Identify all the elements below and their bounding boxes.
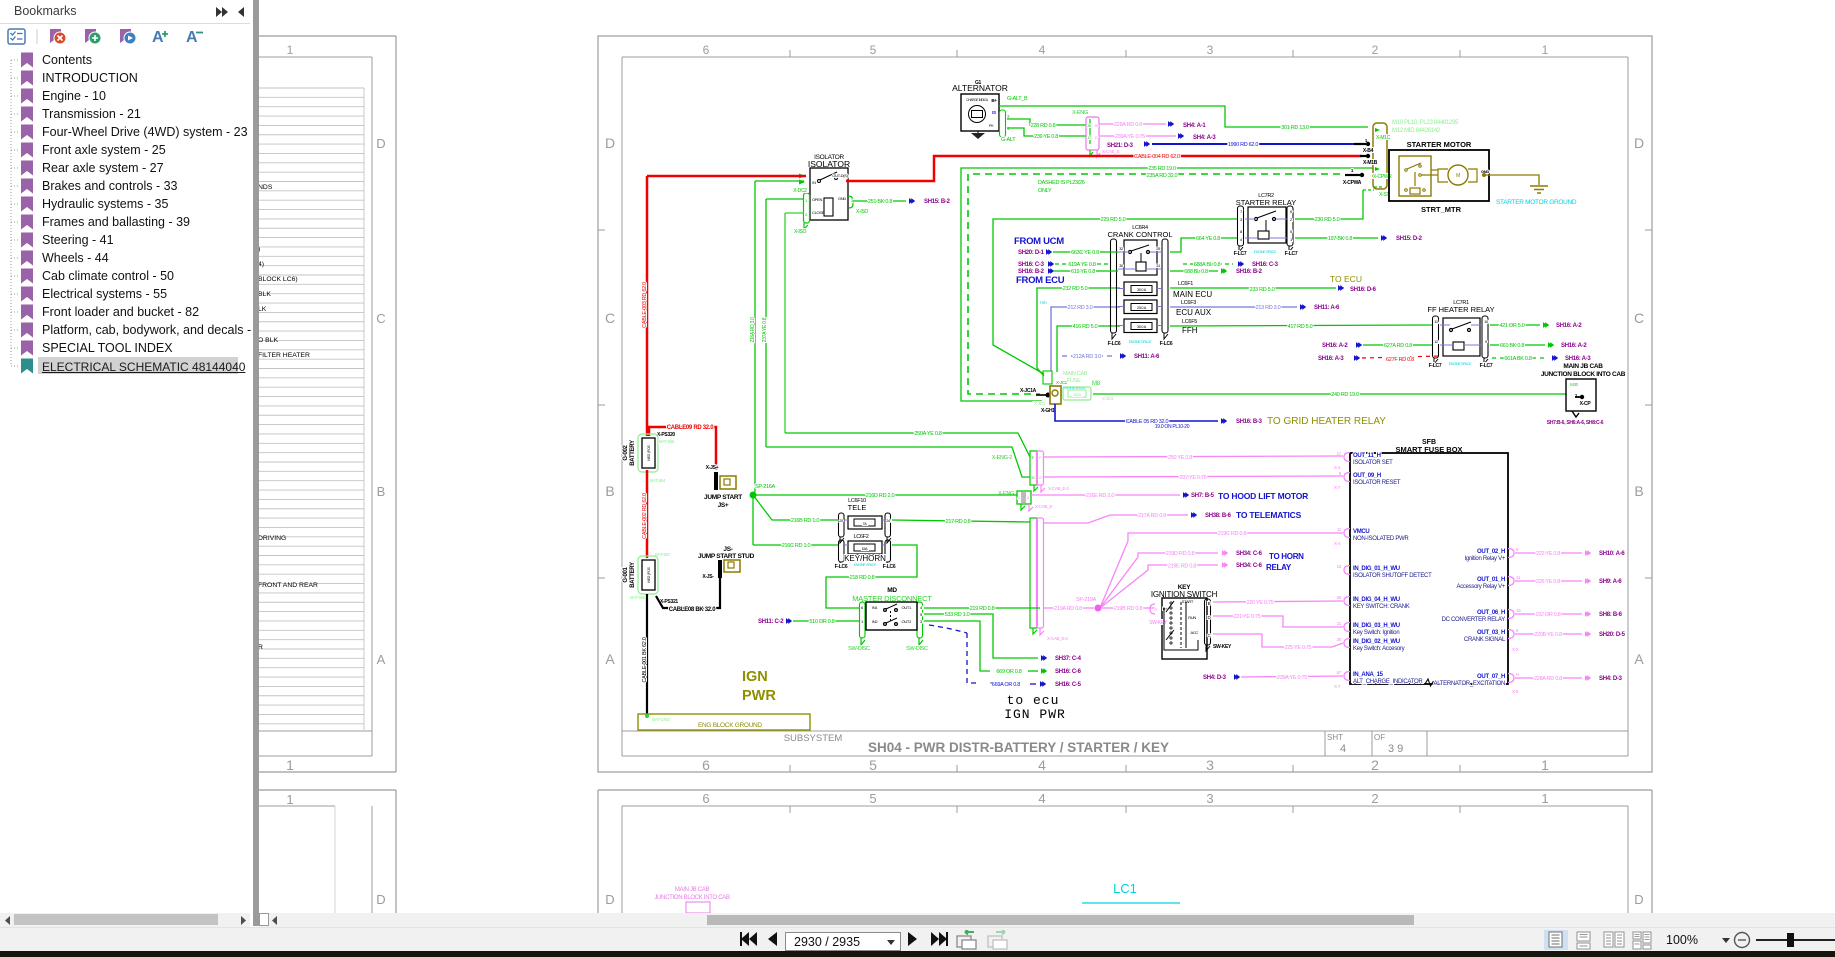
svg-text:SH15: D-2: SH15: D-2 [1396, 236, 1423, 242]
svg-text:421 OR 5.0: 421 OR 5.0 [1499, 323, 1524, 329]
svg-text:ENGINE SPACE: ENGINE SPACE [1129, 340, 1152, 344]
svg-text:ISOLATOR SHUTOFF DETECT: ISOLATOR SHUTOFF DETECT [1353, 573, 1432, 579]
svg-text:664 YE 0.8: 664 YE 0.8 [1196, 236, 1220, 242]
svg-text:30.0 A: 30.0 A [1137, 325, 1147, 329]
svg-text:BLK: BLK [258, 291, 271, 298]
svg-text:JUNCTION BLOCK INTO CAB: JUNCTION BLOCK INTO CAB [1541, 371, 1626, 378]
svg-text:STARTER MOTOR GROUND: STARTER MOTOR GROUND [1496, 199, 1577, 206]
svg-text:3: 3 [1206, 791, 1213, 806]
svg-text:ENG BLOCK GROUND: ENG BLOCK GROUND [698, 722, 762, 729]
svg-text:G-002: G-002 [623, 444, 629, 460]
svg-text:ONLY: ONLY [1038, 188, 1052, 194]
svg-text:DC CONVERTER RELAY: DC CONVERTER RELAY [1442, 617, 1506, 623]
svg-text:GND: GND [1481, 169, 1489, 174]
svg-text:LC6F2: LC6F2 [853, 534, 868, 540]
svg-text:663C YE 0.8: 663C YE 0.8 [1071, 250, 1099, 256]
svg-text:A: A [377, 652, 386, 667]
svg-text:ECU AUX: ECU AUX [1176, 308, 1212, 317]
svg-text:OUT_02_H: OUT_02_H [1477, 549, 1505, 555]
svg-text:IN_DIG_04_H_WU: IN_DIG_04_H_WU [1353, 597, 1400, 603]
svg-text:7A: 7A [862, 522, 867, 526]
svg-text:SH16: A-2: SH16: A-2 [1556, 323, 1582, 329]
svg-text:IN1: IN1 [872, 605, 878, 610]
svg-text:B+: B+ [991, 98, 997, 103]
svg-text:SH4: D-3: SH4: D-3 [1203, 675, 1227, 681]
svg-text:8: 8 [1516, 547, 1519, 552]
svg-text:235A RD 32.0: 235A RD 32.0 [1147, 173, 1178, 179]
svg-text:X-JC1: X-JC1 [1034, 401, 1046, 406]
svg-text:X-5: X-5 [1512, 689, 1519, 694]
svg-text:4: 4 [1340, 743, 1346, 755]
svg-text:SH16: C-3: SH16: C-3 [1252, 262, 1279, 268]
svg-text:218 RD 0.8: 218 RD 0.8 [850, 575, 875, 581]
svg-text:*669A OR 0.8: *669A OR 0.8 [990, 682, 1020, 688]
svg-text:15A: 15A [862, 547, 869, 551]
svg-text:5: 5 [870, 43, 877, 57]
svg-text:H: H [1516, 672, 1519, 677]
svg-text:OUT_09_H: OUT_09_H [1353, 473, 1381, 479]
svg-text:M12 MID 84426142: M12 MID 84426142 [1392, 128, 1441, 134]
svg-text:PWR: PWR [742, 688, 776, 704]
svg-text:IN_DIG_02_H_WU: IN_DIG_02_H_WU [1353, 639, 1400, 645]
svg-text:4: 4 [1240, 237, 1243, 242]
svg-text:SH4: A-3: SH4: A-3 [1193, 135, 1216, 141]
svg-text:2: 2 [1371, 757, 1379, 773]
svg-text:NON-ISOLATED PWR: NON-ISOLATED PWR [1353, 536, 1409, 542]
svg-text:192 OR 0.8: 192 OR 0.8 [1535, 612, 1560, 618]
svg-text:217A RD 0.8: 217A RD 0.8 [1138, 513, 1166, 519]
svg-text:SH11: A-6: SH11: A-6 [1314, 305, 1340, 311]
svg-text:1: 1 [861, 619, 864, 624]
svg-text:OUT_03_H: OUT_03_H [1477, 630, 1505, 636]
svg-text:SH7:B-6, SH6:A-6, SH8:C-6: SH7:B-6, SH6:A-6, SH8:C-6 [1547, 420, 1604, 426]
svg-text:510 OR 0.8: 510 OR 0.8 [809, 619, 834, 625]
svg-text:1: 1 [1541, 757, 1549, 773]
svg-text:240 RD 19.0: 240 RD 19.0 [1331, 392, 1359, 398]
svg-text:F-LC6: F-LC6 [1108, 341, 1121, 347]
svg-text:CABLE-001 BK 62.0: CABLE-001 BK 62.0 [642, 637, 648, 682]
svg-text:FROM ECU: FROM ECU [1016, 275, 1065, 286]
svg-text:619A YE 0.8: 619A YE 0.8 [1068, 262, 1095, 268]
svg-text:X-CP: X-CP [1580, 401, 1592, 407]
svg-text:TO HORN: TO HORN [1269, 552, 1304, 561]
svg-text:NDS: NDS [258, 184, 273, 191]
svg-text:15: 15 [1516, 608, 1521, 613]
svg-text:OUT_01_H: OUT_01_H [1477, 577, 1505, 583]
svg-text:CABLE09 RD 32.0: CABLE09 RD 32.0 [667, 425, 714, 431]
svg-text:X-ST: X-ST [1379, 192, 1389, 198]
svg-text:MD: MD [887, 587, 897, 594]
svg-text:6: 6 [861, 605, 864, 610]
svg-text:OPEN: OPEN [812, 197, 823, 202]
svg-text:BAT-GND: BAT-GND [652, 717, 671, 722]
svg-text:SH16: C-6: SH16: C-6 [1055, 669, 1082, 675]
svg-text:F-LC6: F-LC6 [1160, 341, 1173, 347]
svg-text:216C RD 1.0: 216C RD 1.0 [782, 543, 811, 549]
svg-text:OUT1: OUT1 [902, 605, 913, 610]
svg-text:RELAY: RELAY [1266, 563, 1292, 572]
svg-text:KEY SWITCH: CRANK: KEY SWITCH: CRANK [1353, 604, 1410, 610]
svg-text:SH16: A-2: SH16: A-2 [1561, 343, 1587, 349]
svg-text:CLOSE: CLOSE [812, 210, 825, 215]
svg-text:627F RD 0.8: 627F RD 0.8 [1386, 357, 1414, 363]
svg-text:11: 11 [1337, 527, 1342, 532]
svg-text:661A BK 0.8: 661A BK 0.8 [1504, 356, 1532, 362]
svg-text:M: M [1456, 173, 1460, 179]
svg-text:JUMP START: JUMP START [704, 494, 742, 501]
svg-text:3: 3 [1206, 757, 1214, 773]
svg-text:1: 1 [286, 792, 293, 807]
svg-text:11: 11 [1516, 575, 1521, 580]
svg-text:X-DC2: X-DC2 [793, 188, 807, 194]
svg-text:B: B [377, 484, 386, 499]
svg-text:221 YE 0.75: 221 YE 0.75 [1234, 614, 1261, 620]
svg-text:to ecu: to ecu [1007, 693, 1060, 708]
svg-text:TO GRID HEATER RELAY: TO GRID HEATER RELAY [1267, 416, 1386, 427]
svg-text:STRT_MTR: STRT_MTR [1421, 205, 1462, 214]
svg-text:228 RD 0.8: 228 RD 0.8 [1031, 123, 1056, 129]
svg-text:BAT-564: BAT-564 [650, 478, 666, 483]
svg-text:219 RD 0.8: 219 RD 0.8 [970, 606, 995, 612]
svg-text:OUT2: OUT2 [902, 619, 913, 624]
svg-text:228A RD 0.8: 228A RD 0.8 [1114, 122, 1142, 128]
svg-text:ALTERNATOR_EXCITATION: ALTERNATOR_EXCITATION [1434, 681, 1506, 687]
svg-text:CABLE-004 RD 62.0: CABLE-004 RD 62.0 [1134, 154, 1180, 160]
svg-text:X-JC1A: X-JC1A [1020, 388, 1037, 394]
svg-text:239A YE 0.75: 239A YE 0.75 [1115, 134, 1145, 140]
svg-text:2: 2 [1372, 43, 1379, 57]
svg-text:3 9: 3 9 [1388, 743, 1403, 755]
svg-text:B: B [605, 483, 614, 499]
svg-text:F-LC6: F-LC6 [883, 564, 896, 570]
svg-text:2: 2 [1371, 791, 1378, 806]
svg-text:220B YE 0.8: 220B YE 0.8 [1534, 632, 1562, 638]
svg-text:X-CPWA: X-CPWA [1343, 180, 1362, 186]
svg-text:235 RD 19.0: 235 RD 19.0 [1148, 166, 1176, 172]
svg-text:CRANK SIGNAL: CRANK SIGNAL [1464, 637, 1506, 643]
svg-text:NEG | POS: NEG | POS [647, 566, 651, 582]
svg-text:BATTERY: BATTERY [630, 440, 636, 466]
svg-text:229 RD 5.0: 229 RD 5.0 [1101, 217, 1126, 223]
svg-text:688A BL 0.8: 688A BL 0.8 [1194, 262, 1221, 268]
svg-text:3: 3 [1207, 43, 1214, 57]
svg-text:ISOLATOR RESET: ISOLATOR RESET [1353, 480, 1401, 486]
svg-text:SHT: SHT [1327, 733, 1343, 742]
svg-text:VMCU: VMCU [1353, 529, 1369, 535]
svg-text:26: 26 [1337, 595, 1342, 600]
svg-text:19.0 ON PL10-20: 19.0 ON PL10-20 [1155, 424, 1190, 430]
svg-text:217 RD 0.8: 217 RD 0.8 [946, 519, 971, 525]
svg-text:X-CAB_E-2: X-CAB_E-2 [1047, 636, 1068, 641]
svg-text:213 RD 3.0: 213 RD 3.0 [1256, 305, 1281, 311]
svg-text:669 OR 0.8: 669 OR 0.8 [996, 669, 1021, 675]
svg-text:219A RD 0.8: 219A RD 0.8 [1054, 606, 1082, 612]
svg-text:A: A [1634, 651, 1644, 667]
svg-text:239 YE 0.8: 239 YE 0.8 [1034, 134, 1058, 140]
svg-text:X-CAB_E: X-CAB_E [1035, 504, 1052, 509]
svg-text:1: 1 [287, 43, 294, 57]
svg-text:230 RD 5.0: 230 RD 5.0 [1315, 217, 1340, 223]
svg-text:MAIN JB CAB: MAIN JB CAB [1563, 363, 1603, 370]
svg-text:FFH: FFH [1182, 326, 1198, 335]
svg-text:F-LC7: F-LC7 [1429, 363, 1442, 369]
svg-text:219D RD 0.8: 219D RD 0.8 [1166, 551, 1195, 557]
svg-text:A: A [152, 29, 164, 46]
svg-text:DRIVING: DRIVING [258, 535, 286, 542]
svg-text:5: 5 [869, 791, 876, 806]
svg-text:8: 8 [1339, 471, 1342, 476]
svg-text:D: D [376, 892, 385, 907]
svg-text:SH15: B-2: SH15: B-2 [924, 199, 951, 205]
svg-text:X-B4: X-B4 [1363, 148, 1374, 154]
svg-text:X-PS320: X-PS320 [657, 432, 675, 438]
svg-text:IN_DIG_01_H_WU: IN_DIG_01_H_WU [1353, 566, 1400, 572]
svg-text:20: 20 [1337, 637, 1342, 642]
svg-text:SH16: A-2: SH16: A-2 [1322, 343, 1348, 349]
svg-text:X-M1C: X-M1C [1376, 135, 1391, 141]
svg-text:STARTER MOTOR: STARTER MOTOR [1407, 140, 1472, 149]
svg-text:688 BL 0.8: 688 BL 0.8 [1184, 269, 1208, 275]
svg-text:X-ENG: X-ENG [1072, 110, 1088, 116]
svg-text:A: A [605, 651, 615, 667]
svg-text:BAT-567: BAT-567 [655, 552, 671, 557]
svg-text:31: 31 [1156, 263, 1161, 268]
svg-text:SH8: B-6: SH8: B-6 [1599, 612, 1623, 618]
svg-text:F: F [1039, 455, 1042, 460]
svg-text:C: C [605, 310, 615, 326]
svg-text:CABLE08 BK 32.0: CABLE08 BK 32.0 [669, 607, 716, 613]
svg-text:CABLE-003 RD 62.0: CABLE-003 RD 62.0 [642, 282, 648, 328]
svg-text:416 RD 5.0: 416 RD 5.0 [1073, 324, 1098, 330]
svg-text:X-JC4: X-JC4 [1102, 396, 1114, 401]
svg-text:SH34: C-6: SH34: C-6 [1236, 551, 1263, 557]
svg-text:SH16: C-3: SH16: C-3 [1018, 262, 1045, 268]
svg-text:233 RD 5.0: 233 RD 5.0 [1250, 287, 1275, 293]
svg-text:24: 24 [886, 519, 890, 523]
svg-text:ENGINE SPACE: ENGINE SPACE [1254, 250, 1277, 254]
svg-text:SH7: B-5: SH7: B-5 [1191, 493, 1215, 499]
svg-text:LC1: LC1 [1113, 881, 1137, 896]
svg-text:216D RD 2.0: 216D RD 2.0 [866, 493, 895, 499]
svg-text:BLOCK LC6): BLOCK LC6) [258, 276, 298, 283]
svg-text:O BLK: O BLK [258, 337, 278, 344]
svg-text:ENGINE SPACE: ENGINE SPACE [1449, 362, 1472, 366]
svg-text:100A: 100A [1073, 392, 1082, 397]
svg-text:D: D [1634, 892, 1643, 907]
svg-text:X-CAB_E-2: X-CAB_E-2 [1048, 486, 1069, 491]
svg-text:RUN: RUN [1188, 615, 1196, 620]
svg-text:JS-: JS- [723, 546, 732, 553]
svg-text:301 RD 13.0: 301 RD 13.0 [1281, 125, 1309, 131]
svg-text:619 YE 0.8: 619 YE 0.8 [1071, 269, 1095, 275]
svg-text:7: 7 [1240, 209, 1243, 214]
svg-text:SW-KEY: SW-KEY [1149, 620, 1168, 626]
svg-text:LC6F5: LC6F5 [1182, 319, 1197, 325]
svg-text:220 YE 0.75: 220 YE 0.75 [1247, 600, 1274, 606]
svg-text:251 BK 0.8: 251 BK 0.8 [868, 199, 892, 205]
svg-text:X-7: X-7 [1334, 684, 1341, 689]
svg-text:FRONT AND REAR: FRONT AND REAR [258, 582, 318, 589]
svg-text:SP-216A: SP-216A [755, 484, 776, 490]
svg-text:SH21: D-3: SH21: D-3 [1107, 143, 1134, 149]
svg-text:26: 26 [1087, 124, 1091, 128]
svg-text:Accessory Relay V+: Accessory Relay V+ [1457, 584, 1506, 590]
svg-text:239A YE 0.75: 239A YE 0.75 [1277, 675, 1307, 681]
svg-text:SH4: A-1: SH4: A-1 [1183, 123, 1206, 129]
svg-text:GND: GND [838, 196, 846, 201]
svg-text:OF: OF [1374, 733, 1385, 742]
svg-text:JS+: JS+ [718, 502, 729, 509]
svg-text:B: B [1208, 601, 1211, 606]
svg-text:197 BK 0.8: 197 BK 0.8 [1328, 236, 1352, 242]
svg-text:1990 RD 62.0: 1990 RD 62.0 [1228, 142, 1259, 148]
svg-text:SUBSYSTEM: SUBSYSTEM [784, 733, 843, 744]
svg-text:232 RD 5.0: 232 RD 5.0 [1063, 286, 1088, 292]
svg-text:5: 5 [869, 757, 877, 773]
svg-text:M10 PL10, PL23 84481295: M10 PL10, PL23 84481295 [1392, 120, 1459, 126]
svg-text:219E RD 0.8: 219E RD 0.8 [1168, 564, 1196, 570]
svg-text:X-3: X-3 [1512, 647, 1519, 652]
svg-text:IGN PWR: IGN PWR [1004, 707, 1066, 722]
svg-text:OUT_06_H: OUT_06_H [1477, 610, 1505, 616]
svg-text:X-4: X-4 [1334, 465, 1341, 470]
svg-text:OUT_11_H: OUT_11_H [1353, 453, 1381, 459]
svg-text:DASHED IS PL23/26: DASHED IS PL23/26 [1038, 180, 1085, 186]
svg-text:219C RD 0.8: 219C RD 0.8 [1218, 531, 1247, 537]
svg-text:SH04 - PWR DISTR-BATTERY / STA: SH04 - PWR DISTR-BATTERY / STARTER / KEY [868, 740, 1169, 755]
svg-text:Key Switch: Accesory: Key Switch: Accesory [1353, 646, 1405, 652]
svg-text:17: 17 [1094, 136, 1098, 140]
svg-text:X-4: X-4 [1334, 541, 1341, 546]
svg-text:G-001: G-001 [623, 566, 629, 582]
svg-text:X-7: X-7 [1334, 485, 1341, 490]
svg-text:JUMP START STUD: JUMP START STUD [698, 553, 755, 560]
svg-text:M30: M30 [1570, 382, 1579, 387]
svg-text:ALT_CHARGE_INDICATOR: ALT_CHARGE_INDICATOR [1353, 679, 1423, 685]
svg-text:X-CAB_E: X-CAB_E [1102, 149, 1119, 154]
svg-text:KEY/HORN: KEY/HORN [844, 554, 886, 563]
svg-text:1: 1 [805, 198, 808, 203]
svg-text:216A RD 3.0: 216A RD 3.0 [750, 317, 756, 343]
svg-text:SH4: D-3: SH4: D-3 [1599, 676, 1623, 682]
svg-text:228A RD 0.8: 228A RD 0.8 [1534, 676, 1562, 682]
svg-text:IN: IN [812, 180, 816, 185]
svg-text:IGN: IGN [742, 669, 768, 685]
svg-text:SH10: A-6: SH10: A-6 [1599, 551, 1625, 557]
svg-text:F-LC7: F-LC7 [1480, 363, 1493, 369]
svg-text:1: 1 [286, 757, 294, 773]
svg-text:30.0 A: 30.0 A [1137, 288, 1147, 292]
svg-text:SH16: B-2: SH16: B-2 [1236, 269, 1263, 275]
svg-text:8: 8 [1240, 229, 1243, 234]
svg-text:X-JS+: X-JS+ [706, 465, 719, 471]
svg-text:X-ISO: X-ISO [856, 209, 869, 215]
svg-text:SH16: A-3: SH16: A-3 [1318, 356, 1344, 362]
svg-text:BAT-565: BAT-565 [630, 595, 646, 600]
svg-text:G-ALT_B: G-ALT_B [1007, 96, 1028, 102]
svg-text:START: START [1182, 599, 1194, 604]
svg-text:627A RD 0.8: 627A RD 0.8 [1384, 343, 1412, 349]
svg-text:TO TELEMATICS: TO TELEMATICS [1236, 510, 1302, 520]
svg-text:SH38: B-6: SH38: B-6 [1205, 513, 1232, 519]
svg-text:17: 17 [1337, 451, 1342, 456]
svg-text:32: 32 [1119, 246, 1124, 251]
svg-text:FUSE: FUSE [1067, 378, 1081, 384]
svg-text:216B RD 1.0: 216B RD 1.0 [791, 518, 819, 524]
svg-text:26: 26 [1094, 124, 1098, 128]
svg-text:4: 4 [1038, 791, 1045, 806]
svg-text:D: D [376, 136, 385, 151]
svg-text:SH34: C-6: SH34: C-6 [1236, 563, 1263, 569]
svg-text:LK: LK [258, 306, 267, 313]
svg-text:ACC: ACC [1190, 630, 1198, 635]
svg-text:4: 4 [1018, 495, 1021, 500]
svg-text:ISOLATOR SET: ISOLATOR SET [1353, 460, 1393, 466]
svg-text:TELE: TELE [848, 503, 867, 512]
svg-text:IN_DIG_03_H_WU: IN_DIG_03_H_WU [1353, 623, 1400, 629]
svg-text:SH11: C-2: SH11: C-2 [758, 619, 784, 625]
svg-text:PH: PH [989, 124, 994, 128]
svg-text:20: 20 [839, 519, 843, 523]
svg-text:D: D [1634, 135, 1644, 151]
svg-text:NEG | POS: NEG | POS [647, 444, 651, 460]
svg-text:219B RD 0.8: 219B RD 0.8 [1114, 606, 1142, 612]
svg-text:222 YE 0.8: 222 YE 0.8 [1536, 551, 1560, 557]
svg-text:17: 17 [1087, 136, 1091, 140]
svg-text:X-GH1: X-GH1 [1041, 408, 1055, 414]
svg-text:6: 6 [703, 43, 710, 57]
svg-text:FF HEATER RELAY: FF HEATER RELAY [1427, 305, 1494, 314]
svg-text:TO ECU: TO ECU [1330, 274, 1362, 284]
svg-text:SP-219A: SP-219A [1076, 597, 1097, 603]
svg-text:IN2: IN2 [872, 619, 878, 624]
svg-text:IS: IS [992, 110, 996, 115]
svg-text:216E RD 2.0: 216E RD 2.0 [1086, 493, 1114, 499]
svg-text:FROM UCM: FROM UCM [1014, 236, 1064, 247]
svg-text:SW-KEY: SW-KEY [1213, 644, 1232, 650]
svg-text:ALTERNATOR: ALTERNATOR [952, 83, 1008, 93]
svg-text:IN_ANA_15: IN_ANA_15 [1353, 672, 1384, 678]
svg-text:212A RD 3.0: 212A RD 3.0 [1073, 354, 1101, 360]
svg-text:4: 4 [1038, 757, 1046, 773]
svg-text:SH16: D-6: SH16: D-6 [1350, 287, 1377, 293]
svg-text:F-LC6: F-LC6 [835, 564, 848, 570]
svg-text:1: 1 [1541, 791, 1548, 806]
svg-text:TSR: TSR [1039, 300, 1047, 305]
svg-text:25: 25 [1156, 246, 1161, 251]
svg-text:STARTER RELAY: STARTER RELAY [1236, 198, 1296, 207]
svg-text:SH20: D-5: SH20: D-5 [1599, 632, 1626, 638]
svg-text:SH16: B-3: SH16: B-3 [1236, 419, 1263, 425]
svg-text:6: 6 [702, 791, 709, 806]
svg-text:13: 13 [1337, 564, 1342, 569]
svg-text:SW-DISC: SW-DISC [906, 646, 928, 652]
svg-text:CABLE-002 RD 62.0: CABLE-002 RD 62.0 [642, 493, 648, 539]
svg-text:237 YE 0.75: 237 YE 0.75 [1180, 475, 1207, 481]
svg-text:SH20: D-1: SH20: D-1 [1018, 250, 1045, 256]
svg-text:X-M1B: X-M1B [1363, 160, 1378, 166]
svg-text:A: A [186, 29, 198, 46]
svg-text:250 YE 0.8: 250 YE 0.8 [1168, 455, 1192, 461]
svg-text:21: 21 [1337, 621, 1342, 626]
svg-text:MAIN JB CAB: MAIN JB CAB [675, 887, 710, 893]
svg-text:X-ENG: X-ENG [998, 491, 1014, 497]
svg-text:SW-DISC: SW-DISC [848, 646, 870, 652]
svg-text:225 YE 0.75: 225 YE 0.75 [1285, 645, 1312, 651]
svg-text:BATTERY: BATTERY [630, 562, 636, 588]
svg-text:SH9: A-6: SH9: A-6 [1599, 579, 1622, 585]
svg-text:LC6F1: LC6F1 [1178, 281, 1193, 287]
